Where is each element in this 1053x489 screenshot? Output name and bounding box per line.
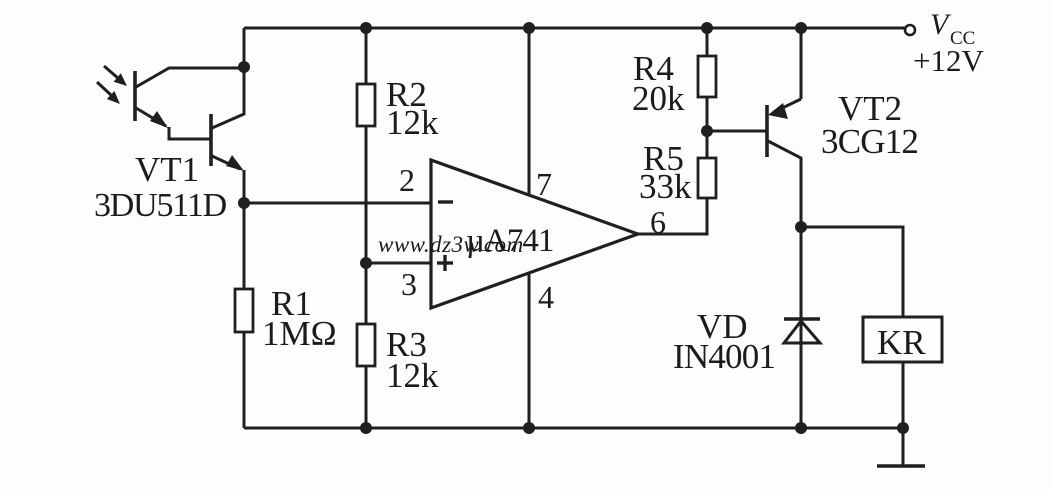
label R2 12k: [386, 75, 439, 142]
label R5 33k: [639, 139, 692, 206]
transistor VT1 first stage emitter with arrow: [136, 108, 211, 139]
transistor VT2 emitter with arrow (PNP): [768, 99, 801, 119]
label VT1: [135, 150, 199, 189]
svg-text:4: 4: [538, 279, 554, 315]
wire pin3 horizontal to op-amp non-inverting input: [366, 262, 431, 265]
transistor VT1 second stage collector: [212, 67, 244, 128]
wire pin 7 from top rail to op-amp: [528, 28, 531, 196]
wire node down to diode cathode: [800, 227, 803, 428]
node junction dot top rail pin7 (529,28): [523, 22, 535, 34]
transistor VT1 first stage (photo) base bar: [133, 71, 137, 121]
wire node to R4 bottom: [706, 97, 709, 131]
wire relay bottom to ground rail: [902, 362, 905, 428]
diode VD triangle: [784, 321, 820, 343]
op-amp plus sign: [437, 255, 453, 271]
svg-text:+12V: +12V: [913, 43, 984, 78]
resistor R2 body: [357, 84, 375, 126]
node junction dot R4 R5 base (707,131): [701, 125, 713, 137]
node junction dot bottom rail R3 (366,428): [360, 422, 372, 434]
node junction dot bottom rail diode (801,428): [795, 422, 807, 434]
diode VD cathode bar: [784, 317, 820, 320]
wire pin 4 from op-amp to ground rail: [528, 272, 531, 428]
label R3 12k: [386, 325, 439, 395]
label pin 2: [399, 162, 415, 198]
transistor VT1 second stage emitter with arrow: [212, 155, 244, 203]
wire pin 6 output to R5 bottom: [638, 198, 707, 234]
resistor R4 body: [698, 56, 716, 97]
transistor VT1 first stage collector: [136, 68, 244, 87]
svg-text:VT1: VT1: [135, 150, 199, 189]
wire R4 top to rail: [706, 28, 709, 56]
op-amp U1 uA741 triangle: [431, 160, 638, 308]
node junction dot pin3 tap (366,263): [360, 257, 372, 269]
wire left vertical from top rail to VT1 collector node: [243, 28, 246, 67]
label pin 3: [401, 266, 417, 302]
node junction dot collector / diode / relay (801,227): [795, 221, 807, 233]
wire VT2 emitter to top rail: [800, 28, 803, 99]
wire top supply rail: [244, 27, 905, 30]
label R1 1MΩ: [262, 284, 337, 353]
node junction dot bottom rail pin4 (529,428): [523, 422, 535, 434]
label uA741: [466, 223, 553, 259]
svg-text:33k: 33k: [639, 167, 692, 206]
light arrow 1 into VT1: [104, 66, 127, 86]
label VT2: [838, 89, 902, 128]
svg-text:www.dz3w.com: www.dz3w.com: [378, 232, 524, 257]
node junction dot bottom rail relay (903,428): [897, 422, 909, 434]
op-amp minus sign: [438, 200, 453, 203]
label VD IN4001: [673, 307, 775, 376]
node junction dot top rail VT2 (801,28): [795, 22, 807, 34]
svg-text:KR: KR: [877, 323, 926, 362]
transistor VT2 collector: [768, 141, 801, 227]
svg-text:V: V: [930, 8, 952, 41]
wire R1 bottom to ground rail: [243, 332, 246, 428]
label 3CG12: [821, 122, 918, 161]
svg-text:7: 7: [536, 166, 552, 202]
transistor VT2 base bar: [765, 105, 769, 157]
svg-text:3CG12: 3CG12: [821, 122, 918, 161]
ground symbol: [877, 428, 925, 466]
label R4 20k: [632, 49, 685, 118]
label 3DU511D: [94, 187, 227, 224]
svg-text:12k: 12k: [386, 356, 439, 395]
light arrow 2 into VT1: [97, 82, 120, 104]
svg-text:3DU511D: 3DU511D: [94, 187, 227, 224]
resistor R3 body: [357, 324, 375, 366]
resistor R5 body: [698, 158, 716, 198]
wire R2 bottom through crossover down to R3: [365, 126, 368, 324]
wire bottom ground rail: [244, 427, 903, 430]
Vcc terminal circle: [905, 25, 915, 35]
wire pin2 horizontal from node to op-amp inverting input: [244, 202, 431, 205]
wire VT2 base from node: [707, 130, 766, 133]
wire diode anode to ground rail: [800, 343, 803, 428]
wire R3 bottom to ground rail: [365, 366, 368, 428]
svg-text:1MΩ: 1MΩ: [262, 314, 337, 353]
label KR: [877, 323, 926, 362]
node junction dot top rail R2 (366,28): [360, 22, 372, 34]
wire R5 top to node: [706, 131, 709, 158]
wire top rail to R2: [365, 28, 368, 84]
transistor VT1 second stage base bar: [209, 114, 213, 166]
node junction dot top rail R4 (707,28): [701, 22, 713, 34]
wire collector node to relay top: [801, 227, 903, 317]
node junction dot at VT1 collector (245,67): [238, 61, 250, 73]
watermark www.dz3w.com: [378, 232, 524, 257]
svg-text:2: 2: [399, 162, 415, 198]
svg-text:20k: 20k: [632, 79, 685, 118]
label pin 6: [650, 204, 666, 240]
label pin 4: [538, 279, 554, 315]
node Vcc label: [913, 8, 984, 78]
resistor R1 body: [235, 289, 253, 332]
label pin 7: [536, 166, 552, 202]
svg-text:IN4001: IN4001: [673, 337, 775, 376]
svg-text:12k: 12k: [386, 103, 439, 142]
wire from node down to R1: [243, 203, 246, 289]
relay KR box: [863, 317, 942, 362]
node junction dot VT1 emitter / R1 / pin2 (245,203): [238, 197, 250, 209]
svg-text:3: 3: [401, 266, 417, 302]
